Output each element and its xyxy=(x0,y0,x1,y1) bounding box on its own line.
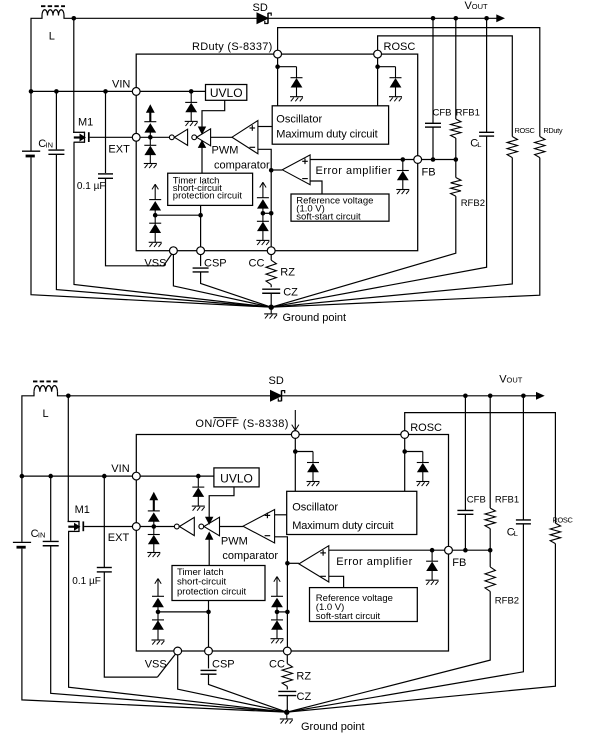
svg-text:VSS: VSS xyxy=(145,659,167,671)
svg-text:CFB: CFB xyxy=(433,107,452,118)
wire: M1 source return (bottom) xyxy=(69,531,287,712)
svg-text:CZ: CZ xyxy=(283,286,298,298)
wire: ROSC pin to external resistor (bottom) xyxy=(405,413,556,523)
svg-text:EXT: EXT xyxy=(108,144,130,156)
wire: PWM - input / CC net (top) xyxy=(258,149,271,250)
arrowhead: VOUT (top) xyxy=(497,15,504,21)
wire: PWM comparator output (top) xyxy=(211,136,232,138)
pin VIN (top) xyxy=(132,88,140,96)
svg-text:0.1 µF: 0.1 µF xyxy=(77,181,106,192)
clamp diode at VIN (bottom) xyxy=(197,476,199,487)
capacitor CFB (bottom) xyxy=(464,396,466,511)
block UVLO (bottom) xyxy=(214,468,259,487)
junction: rail/CFB (bottom) xyxy=(463,394,468,399)
pin VSS (top) xyxy=(170,247,178,255)
junction: switch node (top) xyxy=(72,16,77,21)
wire: VSS return (bottom) xyxy=(178,654,287,712)
svg-text:ROSC: ROSC xyxy=(384,41,416,53)
resistor RFB2 (bottom) xyxy=(489,550,491,567)
wire: ROSC pin internal (bottom) xyxy=(404,435,406,492)
wire: error amp output (bottom) xyxy=(287,562,299,564)
wire: error amp - input to reference (top) xyxy=(310,181,322,194)
svg-text:RZ: RZ xyxy=(296,670,311,682)
svg-text:CSP: CSP xyxy=(212,658,235,670)
wire: ROSC pin to external resistor (top) xyxy=(378,36,513,137)
resistor RFB1 (top) xyxy=(455,18,457,119)
wire: VIN rail (top) xyxy=(31,90,136,92)
svg-text:ROSC: ROSC xyxy=(515,126,536,135)
op-amp error amplifier (top) xyxy=(282,155,310,185)
transistor M1 (top) xyxy=(73,131,85,133)
svg-text:Maximum duty circuit: Maximum duty circuit xyxy=(292,520,393,532)
inverter driver 1 (top) xyxy=(169,135,174,140)
resistor RZ (bottom) xyxy=(286,654,288,664)
clamp diode at FB (bottom) xyxy=(431,550,433,561)
svg-text:CC: CC xyxy=(269,658,285,670)
junction: VIN rail / CIN (top) xyxy=(54,89,59,94)
svg-text:Oscillator: Oscillator xyxy=(292,502,338,514)
svg-text:UVLO: UVLO xyxy=(220,471,253,485)
pin VIN (bottom) xyxy=(132,472,140,480)
ground point node (top) xyxy=(269,305,274,310)
block Timer latch (top) xyxy=(168,173,253,205)
svg-text:VIN: VIN xyxy=(111,463,129,475)
wire: top output rail (bottom) xyxy=(68,395,537,397)
svg-text:RFB1: RFB1 xyxy=(456,107,480,118)
wire: M1 gate to EXT (top) xyxy=(90,136,137,138)
wire: PWM + input from oscillator (top) xyxy=(258,126,272,128)
svg-text:M1: M1 xyxy=(75,504,90,516)
svg-text:Maximum duty circuit: Maximum duty circuit xyxy=(276,129,377,141)
svg-text:M1: M1 xyxy=(78,116,93,128)
inverter driver 1 (bottom) xyxy=(174,524,179,529)
arrowhead: VOUT (bottom) xyxy=(537,393,544,399)
wire: inductor left lead to VIN rail (bottom) xyxy=(22,392,34,476)
svg-text:UVLO: UVLO xyxy=(210,86,243,100)
resistor RFB2 (top) xyxy=(455,160,457,178)
junction: rail/RFB1 (top) xyxy=(454,16,459,21)
junction: switch node (bottom) xyxy=(66,394,71,399)
junction: VIN rail / battery (bottom) xyxy=(20,474,25,479)
svg-text:ROSC: ROSC xyxy=(553,515,574,524)
junction: rail/CL (top) xyxy=(484,16,489,21)
block Reference voltage (top) xyxy=(291,194,389,221)
clamp diode at RDuty (top) xyxy=(296,67,298,78)
wire: switch node vertical (bottom) xyxy=(58,392,69,522)
svg-text:Ground point: Ground point xyxy=(301,721,365,733)
capacitor CL (top) xyxy=(486,18,488,132)
capacitor CSP (bottom) xyxy=(208,654,210,669)
block Reference voltage (bottom) xyxy=(310,588,418,622)
battery input source (top) xyxy=(30,91,32,150)
wire: timer latch to gate driver (top) xyxy=(201,147,203,173)
svg-text:VIN: VIN xyxy=(112,79,130,91)
junction: VIN rail / 0.1uF (top) xyxy=(103,89,108,94)
svg-text:soft-start circuit: soft-start circuit xyxy=(316,611,381,622)
svg-text:EXT: EXT xyxy=(108,532,130,544)
svg-text:CFB: CFB xyxy=(467,494,486,505)
pin VSS (bottom) xyxy=(174,647,182,655)
junction: VIN rail / CIN (bottom) xyxy=(48,474,53,479)
wire: EXT pin internal (bottom) xyxy=(136,526,174,528)
svg-text:CC: CC xyxy=(249,257,265,269)
block Timer latch (bottom) xyxy=(172,566,265,601)
clamp diodes at EXT (bottom) xyxy=(153,521,155,526)
resistor RFB1 (bottom) xyxy=(489,396,491,508)
wire: clamp stack link at CC (top) xyxy=(263,212,271,214)
svg-text:0.1 µF: 0.1 µF xyxy=(72,576,101,587)
pin ON/OFF (bottom) xyxy=(291,431,299,439)
wire: top output rail (top) xyxy=(74,17,497,19)
wire: UVLO output to gate driver (top) xyxy=(202,100,225,127)
svg-text:RFB2: RFB2 xyxy=(461,198,485,209)
capacitor CIN (bottom) xyxy=(50,476,52,541)
svg-text:OUT: OUT xyxy=(472,2,488,11)
block Oscillator (top) xyxy=(272,106,388,144)
svg-text:SD: SD xyxy=(269,375,284,387)
wire: error amp - input to reference (bottom) xyxy=(329,576,344,587)
svg-text:PWM: PWM xyxy=(221,535,248,547)
svg-text:protection circuit: protection circuit xyxy=(177,586,247,597)
diode SD (top) xyxy=(257,13,268,23)
clamp diode at VIN (top) xyxy=(190,91,192,102)
op-amp PWM comparator (bottom) xyxy=(243,510,275,544)
junction: rail/CFB (top) xyxy=(431,16,436,21)
svg-text:L: L xyxy=(43,408,49,420)
svg-text:Ground point: Ground point xyxy=(283,312,347,324)
wire: 0.1uF return slash to VSS (bottom) xyxy=(157,654,175,677)
svg-text:CSP: CSP xyxy=(204,257,227,269)
pin CSP (bottom) xyxy=(205,647,213,655)
svg-text:soft-start circuit: soft-start circuit xyxy=(296,211,361,222)
capacitor CSP (top) xyxy=(200,253,202,266)
svg-text:Error amplifier: Error amplifier xyxy=(316,165,393,177)
capacitor CZ (top) xyxy=(270,285,272,288)
wire: PWM comparator output (bottom) xyxy=(220,526,244,528)
resistor ROSC (bottom) xyxy=(550,523,560,544)
wire: RDuty pin internal (top) xyxy=(277,54,279,106)
clamp diodes stack near CSP (bottom) xyxy=(157,607,159,612)
block Oscillator (bottom) xyxy=(287,491,417,534)
block UVLO (top) xyxy=(206,85,247,101)
pin ROSC (bottom) xyxy=(401,431,409,439)
wire: PWM + input from oscillator (bottom) xyxy=(275,514,287,516)
svg-text:ON/OFF (S-8338): ON/OFF (S-8338) xyxy=(195,418,288,430)
svg-text:L: L xyxy=(477,140,481,149)
inductor L (top) xyxy=(42,10,64,16)
svg-text:RZ: RZ xyxy=(280,266,295,278)
junction: rail/CL (bottom) xyxy=(521,394,526,399)
pin EXT (bottom) xyxy=(132,523,140,531)
resistor ROSC (top) xyxy=(507,137,517,158)
junction: VIN rail / 0.1uF (bottom) xyxy=(102,474,107,479)
clamp diodes stack near CC (bottom) xyxy=(276,607,278,612)
wire: error amp + input / FB net (top) xyxy=(310,159,456,161)
wire: RDuty pin to external resistor (top) xyxy=(278,28,540,137)
pin RDuty (top) xyxy=(274,50,282,58)
svg-text:FB: FB xyxy=(422,166,436,178)
svg-text:IN: IN xyxy=(38,531,46,540)
wire: VIN rail (bottom) xyxy=(22,475,136,477)
IC body S-8338 (bottom) xyxy=(136,435,448,652)
wire: VIN pin internal (bottom) xyxy=(136,475,214,477)
pin CSP (top) xyxy=(197,247,205,255)
pin ROSC (top) xyxy=(374,50,382,58)
resistor RDuty (top) xyxy=(535,137,545,158)
clamp diode at ROSC (bottom) xyxy=(422,452,424,463)
op-amp PWM comparator (top) xyxy=(232,121,258,154)
inverter driver 2 (bottom) xyxy=(199,524,204,529)
resistor RZ (top) xyxy=(270,253,272,260)
capacitor CIN (top) xyxy=(55,91,57,149)
wire: 0.1uF return slash to VSS (top) xyxy=(164,253,173,266)
battery input source (bottom) xyxy=(21,476,23,542)
clamp diode at ON/OFF (bottom) xyxy=(312,452,314,463)
svg-text:SD: SD xyxy=(253,2,268,14)
wire: error amp + input / FB net (bottom) xyxy=(329,549,490,551)
op-amp error amplifier (bottom) xyxy=(299,546,329,582)
junction: rail/RFB1 (bottom) xyxy=(488,394,493,399)
wire: ON/OFF pin internal (bottom) xyxy=(294,435,296,492)
wire: inductor left lead to VIN rail (top) xyxy=(31,16,42,92)
wire: clamp stack link at CC (bottom) xyxy=(277,611,287,613)
capacitor CZ (bottom) xyxy=(286,686,288,689)
svg-text:OUT: OUT xyxy=(507,376,523,385)
clamp diodes stack near CSP (top) xyxy=(154,210,156,215)
svg-text:RFB1: RFB1 xyxy=(495,494,519,505)
wire: UVLO output to gate driver (bottom) xyxy=(209,487,234,518)
wire: timer latch to CSP pin (bottom) xyxy=(208,601,210,652)
svg-text:RFB2: RFB2 xyxy=(495,595,519,606)
clamp diodes at EXT (top) xyxy=(149,132,151,137)
wire: VSS return (top) xyxy=(173,253,271,307)
capacitor CL (bottom) xyxy=(522,396,524,520)
arrow: ON/OFF control input (bottom) xyxy=(294,410,296,430)
svg-text:Error amplifier: Error amplifier xyxy=(336,556,413,568)
IC body S-8337 (top) xyxy=(136,54,418,251)
capacitor 0.1uF (bottom) xyxy=(103,476,105,567)
svg-text:protection circuit: protection circuit xyxy=(173,190,243,201)
svg-text:FB: FB xyxy=(452,557,466,569)
wire: soft-start stack link left (top) xyxy=(155,214,200,216)
svg-text:L: L xyxy=(514,529,518,538)
wire: ROSC pin internal (top) xyxy=(377,54,379,106)
svg-text:IN: IN xyxy=(46,140,54,149)
svg-text:comparator: comparator xyxy=(222,550,278,562)
wire: VIN pin internal (top) xyxy=(136,90,205,92)
clamp diodes stack near CC (top) xyxy=(262,208,264,213)
svg-text:Oscillator: Oscillator xyxy=(276,114,322,126)
svg-text:PWM: PWM xyxy=(212,145,239,157)
wire: M1 gate to EXT (bottom) xyxy=(84,526,136,528)
wire: error amp output (top) xyxy=(271,169,282,171)
diode SD (bottom) xyxy=(271,391,282,401)
svg-text:comparator: comparator xyxy=(214,160,270,172)
ground point node (bottom) xyxy=(284,710,289,715)
wire: soft-start stack link left (bottom) xyxy=(158,611,209,613)
svg-text:ROSC: ROSC xyxy=(410,422,442,434)
transistor M1 (bottom) xyxy=(68,521,80,523)
svg-text:VSS: VSS xyxy=(144,257,166,269)
wire: timer latch to CSP pin (top) xyxy=(200,205,202,250)
inductor L (bottom) xyxy=(34,386,58,392)
pin FB (top) xyxy=(414,156,422,164)
svg-text:RDuty (S-8337): RDuty (S-8337) xyxy=(192,41,273,53)
wire: timer latch to gate driver (bottom) xyxy=(208,539,210,566)
wire: PWM - input / CC net (bottom) xyxy=(275,537,288,651)
clamp diode at ROSC (top) xyxy=(395,67,397,78)
pin CC (top) xyxy=(267,247,275,255)
inverter driver 2 (top) xyxy=(192,135,197,140)
svg-text:CZ: CZ xyxy=(297,691,312,703)
pin FB (bottom) xyxy=(445,546,453,554)
svg-text:L: L xyxy=(49,30,55,42)
junction: VIN rail / battery (top) xyxy=(29,89,34,94)
capacitor CFB (top) xyxy=(432,18,434,123)
wire: M1 source return (top) xyxy=(74,142,271,307)
clamp diode at FB (top) xyxy=(402,160,404,171)
wire: EXT pin internal (top) xyxy=(136,136,169,138)
pin EXT (top) xyxy=(132,133,140,141)
capacitor 0.1uF (top) xyxy=(105,91,107,173)
svg-text:RDuty: RDuty xyxy=(543,126,562,135)
pin CC (bottom) xyxy=(283,647,291,655)
wire: switch node vertical (top) xyxy=(64,16,74,133)
